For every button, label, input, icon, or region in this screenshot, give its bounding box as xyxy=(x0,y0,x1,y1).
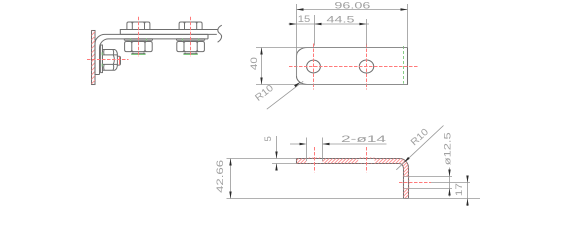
dimension 15 and 44.5 xyxy=(289,14,370,46)
centerline bolt B2 xyxy=(190,17,192,57)
red centerline hole H2 xyxy=(366,44,368,90)
svg-text:40: 40 xyxy=(249,57,260,70)
svg-text:17: 17 xyxy=(454,183,465,196)
red centerline hole H1 (section) xyxy=(314,147,316,172)
green thread ticks xyxy=(101,52,103,66)
red centerline hole H1 xyxy=(313,44,315,90)
bolt tip xyxy=(117,56,121,65)
svg-text:2-ø14: 2-ø14 xyxy=(341,134,387,145)
red thread mark at bolt tip xyxy=(119,57,121,65)
dimension 2-diam14 xyxy=(290,134,387,161)
svg-text:R10: R10 xyxy=(409,127,431,149)
section hatching xyxy=(225,140,473,215)
red centerline hole H2 (section) xyxy=(366,147,368,172)
svg-text:15: 15 xyxy=(298,14,311,25)
R10 leader (top view) xyxy=(253,81,303,109)
wall plate (hatched) xyxy=(23,20,164,95)
svg-text:42.66: 42.66 xyxy=(215,160,226,193)
dimension diam12.5 xyxy=(442,132,453,196)
centerline bolt B1 xyxy=(138,17,140,57)
bolt B1 with nut (left) xyxy=(124,22,152,54)
side washer on vertical leg xyxy=(101,45,103,73)
svg-text:96.06: 96.06 xyxy=(334,0,370,11)
side hex nut on vertical leg xyxy=(103,50,118,71)
green bend line xyxy=(403,46,405,84)
hole H1 (top view) xyxy=(307,60,321,73)
bolt B2 with nut (right) xyxy=(177,22,205,54)
svg-text:R10: R10 xyxy=(253,83,276,104)
svg-text:ø12.5: ø12.5 xyxy=(442,132,453,165)
bracket L-profile (assembly view) xyxy=(95,34,208,74)
bent section outline xyxy=(297,159,409,199)
dimension 5 (thickness) xyxy=(263,136,297,171)
dimension 42.66 xyxy=(215,159,480,199)
leg hole edge lines xyxy=(404,176,453,178)
mounting bar (assembly view) xyxy=(120,30,218,35)
svg-text:5: 5 xyxy=(263,136,274,141)
dimension 40 xyxy=(249,48,408,85)
red horizontal centerline (top view) xyxy=(289,66,419,68)
red centerline leg hole xyxy=(399,182,431,184)
svg-text:44.5: 44.5 xyxy=(327,15,355,26)
plate outline with rounded left corners xyxy=(297,47,408,84)
dimension 17 xyxy=(454,176,469,207)
centerline side bolt xyxy=(87,59,129,61)
dimension 96.06 xyxy=(297,0,408,76)
break line (bar right end) xyxy=(218,25,222,42)
hole H2 (top view) xyxy=(359,60,373,73)
R10 leader (section) xyxy=(396,126,443,170)
